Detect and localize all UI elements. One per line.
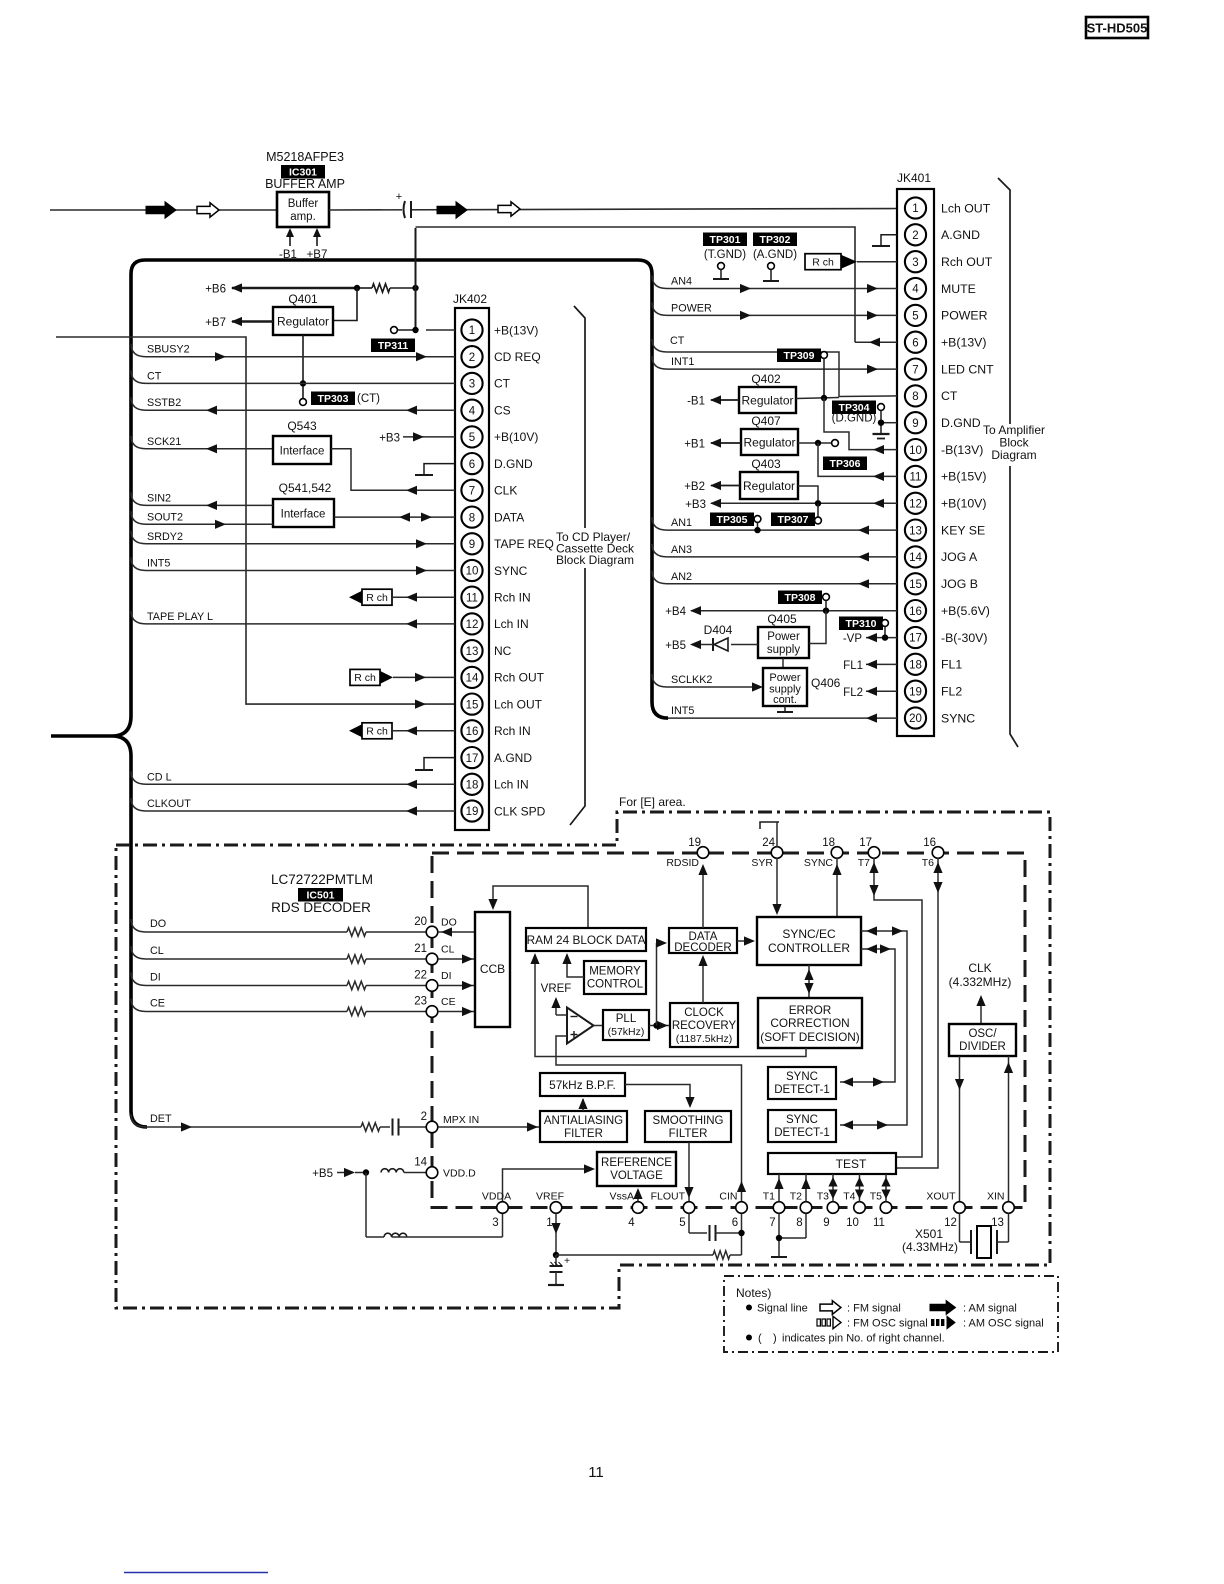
pin 12 of JK402 (Lch IN) (461, 613, 528, 634)
svg-text:TP309: TP309 (784, 350, 815, 362)
svg-text:POWER: POWER (671, 302, 712, 314)
svg-text:Q402: Q402 (751, 372, 781, 386)
svg-text:ERROR: ERROR (789, 1003, 832, 1017)
IC block PLL 57kHz (603, 1010, 649, 1040)
pin 8 of JK401 (CT) (905, 385, 958, 406)
wire T6 pin 16 to TEST block (896, 858, 943, 1168)
op-amp U IC301 buffer amp labels (265, 150, 345, 191)
svg-text:SYNC/EC: SYNC/EC (782, 927, 836, 941)
svg-text:11: 11 (910, 472, 922, 484)
svg-text:8: 8 (796, 1217, 802, 1229)
pin 17 of IC501 (T7) (858, 837, 880, 869)
svg-text:CONTROL: CONTROL (587, 979, 644, 991)
svg-text:20: 20 (414, 916, 427, 928)
arrow on AN2 JOG B wire (858, 579, 869, 588)
svg-text:FLOUT: FLOUT (651, 1191, 686, 1203)
wire data decoder to SYNC/EC controller (737, 936, 755, 945)
note text To CD Player Cassette Deck Block Diagram (555, 528, 635, 568)
pin 11 of JK401 (+B(15V)) (905, 466, 987, 487)
wire Q407 input with test point TP306 (798, 440, 838, 447)
pin 8 of JK402 (DATA) (461, 506, 524, 527)
brace to CD player block diagram (570, 306, 585, 825)
svg-text:AN2: AN2 (671, 571, 692, 583)
wire SOUT2 from bus (131, 511, 273, 524)
svg-text:MEMORY: MEMORY (589, 966, 641, 978)
svg-text:CLK: CLK (968, 961, 991, 975)
node junction +B3 net (815, 500, 821, 506)
wire comparator minus input to VREF (556, 1014, 567, 1016)
svg-text:2: 2 (469, 352, 475, 364)
arrow on -B13V wire (873, 445, 884, 454)
pin 7 of JK402 (CLK) (461, 480, 517, 501)
svg-text:FL2: FL2 (843, 687, 863, 699)
svg-text:4: 4 (469, 405, 476, 417)
svg-text:10: 10 (909, 445, 922, 457)
node junction on D.GND wire (878, 420, 884, 426)
wire +B3 into JK402 pin5 (379, 432, 455, 444)
svg-text:AN3: AN3 (671, 544, 692, 556)
wire thick bus border of control block with rounded corners (51, 260, 668, 1127)
svg-text:For [E] area.: For [E] area. (619, 795, 686, 809)
pin 4 of JK402 (CS) (461, 400, 510, 421)
wire OSC divider to XOUT pin 12 (955, 1056, 964, 1202)
IC block CLOCK RECOVERY (670, 1003, 738, 1047)
svg-text:INT1: INT1 (671, 356, 694, 368)
svg-text:RDSID: RDSID (666, 857, 699, 869)
wire +B2 output of Q403 (684, 481, 740, 493)
svg-text:RAM 24 BLOCK DATA: RAM 24 BLOCK DATA (527, 933, 646, 947)
svg-text:VDD.D: VDD.D (443, 1168, 476, 1180)
svg-text:19: 19 (909, 686, 922, 698)
test point TP311 on +B13V at JK402 pin1 (371, 327, 416, 352)
label CLK (4.332MHz) (949, 961, 1012, 989)
wire SRDY2 from bus (131, 531, 455, 544)
pin 6 of JK402 (D.GND) (461, 453, 533, 474)
svg-text:6: 6 (469, 459, 475, 471)
interface Q541,542 (273, 481, 334, 527)
svg-text:XIN: XIN (987, 1191, 1005, 1203)
svg-text:DIVIDER: DIVIDER (959, 1041, 1006, 1053)
IC block ERROR CORRECTION (SOFT DECISION) (758, 998, 862, 1048)
node junction at JK402 pin1 wire (412, 327, 418, 333)
wire +B6 supply line with resistor (205, 283, 415, 295)
legend AM OSC signal arrow (931, 1316, 1044, 1329)
pin 10 of IC501 (T4) (843, 1191, 865, 1230)
svg-text:DETECT-1: DETECT-1 (774, 1084, 830, 1096)
svg-text:13: 13 (991, 1217, 1004, 1229)
pin 2 of IC501 (MPX IN) (421, 1111, 480, 1133)
svg-text:Lch OUT: Lch OUT (941, 201, 991, 215)
IC block CCB (475, 912, 510, 1027)
svg-text:VOLTAGE: VOLTAGE (610, 1170, 663, 1182)
wire CLKOUT from bus (131, 798, 455, 811)
svg-text:SYNC: SYNC (941, 711, 975, 725)
pin 11 of JK402 (Rch IN) (461, 587, 530, 608)
node junction +B4 to power supply (823, 608, 829, 614)
svg-text:CLOCK: CLOCK (684, 1007, 724, 1019)
svg-text:Power: Power (769, 672, 801, 684)
brace to amplifier block diagram (998, 178, 1018, 747)
svg-text:TP308: TP308 (785, 592, 816, 604)
svg-text:19: 19 (688, 837, 701, 849)
wire -B1 output of Q402 (687, 395, 739, 407)
capacitor C coupling polarized on output line (396, 191, 412, 218)
svg-text:CT: CT (670, 335, 685, 347)
wire Q402 input from pin10 net (796, 398, 839, 399)
svg-text:VREF: VREF (536, 1191, 564, 1203)
pin 12 of JK401 (+B(10V)) (905, 493, 987, 514)
svg-text:(T.GND): (T.GND) (704, 249, 746, 261)
pin 18 of JK401 (FL1) (905, 654, 962, 675)
wire +B13V out of JK401 pin6 (855, 341, 897, 343)
node junction VREF net (553, 1252, 559, 1258)
svg-text:3: 3 (912, 257, 918, 269)
svg-text:CL: CL (150, 945, 164, 957)
wire VREF pin 1 decoupling (551, 1214, 560, 1256)
wire INT5 from bus (131, 558, 455, 571)
test point TP303 (CT) (300, 392, 381, 406)
svg-text:SRDY2: SRDY2 (147, 531, 183, 543)
svg-text:+B(15V): +B(15V) (941, 470, 986, 484)
svg-text:CLKOUT: CLKOUT (147, 798, 191, 810)
wire CE from bus with resistor (131, 998, 426, 1016)
svg-text:: FM OSC signal: : FM OSC signal (847, 1318, 928, 1330)
svg-text:cont.: cont. (773, 694, 797, 706)
pin 24 of IC501 (SYR) (751, 837, 782, 869)
svg-text:3: 3 (469, 379, 475, 391)
pin 18 of IC501 (SYNC) (804, 837, 843, 869)
svg-text:17: 17 (909, 633, 922, 645)
svg-text:T7: T7 (858, 857, 870, 869)
wire SYR pin 24 into SYNC/EC controller (772, 822, 781, 915)
pin 19 of JK401 (FL2) (905, 681, 962, 702)
wire BPF output to smoothing filter (625, 1085, 695, 1109)
svg-text:12: 12 (909, 499, 922, 511)
svg-text:M5218AFPE3: M5218AFPE3 (266, 150, 344, 164)
ground at JK402 pin6 D.GND (415, 464, 455, 475)
svg-text:CL: CL (441, 944, 455, 956)
svg-text:+B(13V): +B(13V) (941, 336, 986, 350)
boundary dash-dot box For [E] area (116, 812, 1050, 1308)
node junction Q407 input (815, 440, 821, 446)
svg-text:Interface: Interface (281, 509, 326, 521)
arrows T3 bidirectional (828, 1174, 837, 1202)
svg-text:57kHz B.P.F.: 57kHz B.P.F. (549, 1078, 616, 1092)
svg-text:Regulator: Regulator (741, 394, 793, 408)
svg-text:8: 8 (912, 391, 918, 403)
IC block RAM 24 BLOCK DATA (526, 928, 646, 951)
note text To Amplifier Block Diagram (983, 423, 1045, 466)
ground at JK401 pin2 A.GND (872, 235, 897, 246)
pin 14 of JK402 (Rch OUT) (461, 667, 544, 688)
svg-text:TAPE REQ: TAPE REQ (494, 537, 554, 551)
svg-text:SSTB2: SSTB2 (147, 397, 181, 409)
wire -VP from JK401 pin17 (843, 633, 897, 645)
svg-text:TP310: TP310 (846, 618, 877, 630)
wire RAM block to CCB (488, 886, 588, 928)
pin 17 of JK402 (A.GND) (461, 747, 532, 768)
svg-text:Rch IN: Rch IN (494, 591, 531, 605)
capacitor electrolytic on VREF (548, 1255, 570, 1285)
wire power supply to +B4 node (809, 611, 826, 644)
wire Lch OUT feed from left edge (56, 337, 455, 704)
svg-text:A.GND: A.GND (494, 751, 532, 765)
svg-text:12: 12 (466, 619, 479, 631)
svg-text:-B1: -B1 (687, 396, 705, 408)
pin 18 of JK402 (Lch IN) (461, 774, 528, 795)
svg-text:R ch: R ch (354, 672, 376, 684)
svg-text:JK402: JK402 (453, 292, 487, 306)
pin 4 of IC501 (VssA) (609, 1191, 643, 1230)
wire smoothing filter to FLOUT pin 5 (684, 1142, 693, 1201)
model label ST-HD505 (1086, 17, 1148, 38)
arrow on SOUT2 wire (215, 520, 226, 529)
svg-text:Q406: Q406 (811, 676, 841, 690)
svg-text:12: 12 (944, 1217, 957, 1229)
ground of Q406 (777, 706, 793, 712)
wire MPX IN to antialiasing filter (438, 1126, 540, 1128)
wire Q403 input from +B10V net (798, 486, 818, 503)
svg-text:CCB: CCB (480, 962, 505, 976)
pin 13 of JK401 (KEY SE) (905, 520, 985, 541)
svg-text:amp.: amp. (290, 211, 316, 223)
svg-text:4: 4 (912, 284, 919, 296)
interface Q543 (273, 419, 331, 464)
svg-text:MUTE: MUTE (941, 282, 976, 296)
svg-text:DI: DI (150, 972, 161, 984)
svg-text:RECOVERY: RECOVERY (672, 1020, 737, 1032)
svg-text:CLK SPD: CLK SPD (494, 804, 546, 818)
svg-text:TP307: TP307 (778, 514, 809, 526)
svg-text:CE: CE (150, 998, 165, 1010)
pin 16 of IC501 (T6) (922, 837, 944, 869)
svg-text:DATA: DATA (494, 510, 524, 524)
svg-text:1: 1 (912, 203, 918, 215)
svg-text:+: + (564, 1256, 570, 1267)
svg-text:Signal line: Signal line (757, 1303, 808, 1315)
svg-text:Q403: Q403 (751, 457, 781, 471)
svg-text:NC: NC (494, 644, 512, 658)
svg-text:13: 13 (466, 646, 479, 658)
svg-text:(1187.5kHz): (1187.5kHz) (676, 1033, 732, 1045)
svg-text:SYR: SYR (751, 857, 773, 869)
test point TP308 (778, 591, 829, 611)
svg-text:+B(10V): +B(10V) (941, 497, 986, 511)
wire antialiasing filter to BPF (578, 1098, 587, 1111)
svg-text:4: 4 (628, 1217, 635, 1229)
svg-text:T2: T2 (790, 1191, 802, 1203)
wire T1 T2 to ground (771, 1214, 806, 1258)
wire SYNC/EC to sync detect 2 bidirectional (840, 926, 907, 1129)
svg-text:FL1: FL1 (843, 660, 863, 672)
wire AN1 from right bus (652, 517, 897, 530)
svg-text:A.GND: A.GND (941, 228, 980, 242)
svg-text:CORRECTION: CORRECTION (770, 1016, 849, 1030)
op-amp IC301 buffer amp box (277, 192, 329, 227)
AM signal arrow after buffer amp (437, 202, 467, 218)
test point TP307 (771, 503, 821, 526)
svg-text:D404: D404 (704, 623, 733, 637)
test point TP304 (D.GND) (832, 401, 885, 425)
svg-text:): ) (773, 1333, 777, 1345)
pin 9 of IC501 (T3) (817, 1191, 839, 1230)
svg-text:(CT): (CT) (357, 393, 380, 405)
IC block MEMORY CONTROL (584, 961, 646, 994)
svg-text:T3: T3 (817, 1191, 829, 1203)
arrow on SYNC wire to pin10 (416, 566, 427, 575)
svg-text:+B3: +B3 (685, 499, 706, 511)
FM signal arrow after buffer amp (498, 202, 520, 216)
arrow on SBUSY2 wire (215, 352, 226, 361)
regulator Q402 (739, 372, 796, 413)
wire SSTB2 from bus (131, 397, 455, 410)
svg-text:(A.GND): (A.GND) (753, 249, 797, 261)
pin 15 of JK401 (JOG B) (905, 573, 978, 594)
pin 10 of JK402 (SYNC) (461, 560, 527, 581)
svg-text:-B(-30V): -B(-30V) (941, 631, 987, 645)
wire INT1 from right bus (652, 356, 897, 369)
svg-text:Block Diagram: Block Diagram (556, 553, 634, 567)
pin 16 of JK402 (Rch IN) (461, 720, 530, 741)
pin 17 of JK401 (-B(-30V)) (905, 627, 988, 648)
pin 4 of JK401 (MUTE) (905, 278, 976, 299)
wire OSC divider CLK output (976, 995, 985, 1024)
legend AM signal arrow (930, 1301, 1017, 1315)
svg-text:14: 14 (909, 552, 922, 564)
legend FM signal arrow (820, 1301, 901, 1315)
wire T7 pin 17 to TEST block (869, 858, 922, 1157)
node junction +B6 to Q401 (354, 285, 360, 291)
wire FL1 from JK401 pin18 (843, 660, 897, 672)
wire XIN pin 13 to OSC divider (1004, 1056, 1013, 1209)
svg-text:INT5: INT5 (671, 705, 694, 717)
arrows T5 bidirectional (881, 1174, 890, 1202)
svg-text:CT: CT (494, 377, 511, 391)
wire AN4 from right bus (652, 276, 897, 289)
wire FL2 from JK401 pin19 (843, 687, 897, 699)
svg-text:TEST: TEST (836, 1157, 867, 1171)
power pin +B7 of buffer amp (307, 228, 328, 261)
svg-text:BUFFER AMP: BUFFER AMP (265, 177, 345, 191)
svg-text:+B7: +B7 (205, 317, 226, 329)
svg-text:(D.GND): (D.GND) (832, 413, 877, 425)
node junction CIN capacitor (738, 1230, 744, 1236)
arrow on CE wire (462, 1007, 473, 1016)
svg-text:6: 6 (912, 337, 918, 349)
regulator Q407 (741, 414, 798, 455)
svg-text:TP311: TP311 (378, 340, 409, 352)
pin 22 of IC501 (DI) (414, 970, 451, 992)
wire SYNC/EC to error correction bidirectional (804, 965, 813, 998)
svg-text:11: 11 (873, 1217, 885, 1229)
pin 9 of JK401 (D.GND) (905, 412, 981, 433)
wire CD L from bus (131, 771, 455, 784)
wire error correction feedback to RAM (530, 953, 806, 1057)
wire +B5 branch to VDDA pin 3 with inductor (366, 1173, 503, 1238)
svg-text:indicates pin No. of right cha: indicates pin No. of right channel. (782, 1333, 945, 1345)
svg-text:supply: supply (767, 644, 800, 656)
arrow into clock recovery (657, 1021, 668, 1030)
power supply controller Q406 (763, 658, 841, 706)
pin 2 of JK402 (CD REQ) (461, 346, 540, 367)
svg-text:14: 14 (414, 1157, 427, 1169)
IC block ANTIALIASING FILTER (540, 1111, 627, 1142)
AM signal arrow on input line (146, 202, 176, 218)
svg-text:DI: DI (441, 970, 452, 982)
crystal X501 (4.33MHz) (902, 1214, 1009, 1259)
capacitor between FLOUT and CIN (689, 1214, 742, 1242)
svg-text:6: 6 (732, 1217, 738, 1229)
svg-text:VREF: VREF (541, 983, 572, 995)
logic level mark above pin 24 (760, 822, 779, 829)
svg-text:CD L: CD L (147, 771, 172, 783)
svg-text:1: 1 (469, 325, 475, 337)
svg-text:Lch IN: Lch IN (494, 617, 529, 631)
arrows T2 into TEST (801, 1174, 810, 1202)
pin 21 of IC501 (CL) (414, 943, 454, 965)
arrow on CD L wire (406, 780, 417, 789)
wire +B4 from JK401 pin16 (665, 606, 897, 618)
svg-text:(4.33MHz): (4.33MHz) (902, 1240, 958, 1254)
svg-text:TP302: TP302 (760, 234, 791, 246)
svg-text:Regulator: Regulator (277, 315, 329, 329)
IC block OSC/DIVIDER (949, 1024, 1016, 1056)
IC block SYNC DETECT-1 lower (768, 1110, 836, 1142)
svg-text:T1: T1 (763, 1191, 775, 1203)
svg-text:Q541,542: Q541,542 (279, 481, 332, 495)
svg-text:+B6: +B6 (205, 284, 226, 296)
svg-text:T6: T6 (922, 857, 934, 869)
wire from +B6 node down into Q401 regulator (333, 288, 357, 321)
svg-text:FILTER: FILTER (669, 1128, 708, 1140)
arrow on MPX IN wire (527, 1122, 538, 1131)
svg-text:16: 16 (466, 726, 479, 738)
arrow on Lch OUT wire to pin15 (415, 700, 426, 709)
pin 3 of IC501 (VDDA) (482, 1191, 511, 1230)
wire +B1 output of Q407 (684, 438, 741, 450)
svg-text:+: + (396, 191, 402, 203)
IC IC501 package dashed outline (432, 853, 1025, 1208)
wire CT from bus (131, 370, 455, 383)
wire JK402 pin1 to +B13V node (426, 329, 455, 331)
arrows on POWER wire (740, 311, 751, 320)
pin 11 of IC501 (T5) (870, 1191, 892, 1230)
svg-text:Power: Power (767, 631, 800, 643)
svg-text:DO: DO (150, 918, 166, 930)
svg-text:16: 16 (909, 606, 922, 618)
wire PLL output up to data decoder (656, 938, 667, 1025)
footer link line (124, 1572, 268, 1574)
svg-text:11: 11 (588, 1464, 604, 1481)
svg-text:Lch IN: Lch IN (494, 778, 529, 792)
arrow on CL wire (462, 954, 473, 963)
bidirectional arrows on DATA wire (399, 513, 410, 522)
arrows on SSTB2 wire (206, 406, 217, 415)
svg-text:22: 22 (414, 970, 427, 982)
wire SYNC pin 18 from SYNC/EC controller (832, 858, 841, 917)
svg-text:23: 23 (414, 996, 427, 1008)
test point TP305 (710, 513, 761, 531)
svg-text:T4: T4 (843, 1191, 855, 1203)
pin 16 of JK401 (+B(5.6V)) (905, 600, 990, 621)
arrow up toward comparator on CIN riser (737, 1181, 746, 1192)
svg-text:AN1: AN1 (671, 517, 692, 529)
pin 20 of JK401 (SYNC) (905, 707, 975, 728)
pin 1 of JK401 (Lch OUT) (905, 197, 991, 218)
IC U IC501 RDS decoder labels (271, 872, 373, 915)
connector JK402 body (453, 292, 489, 830)
svg-text:SCLKK2: SCLKK2 (671, 674, 712, 686)
